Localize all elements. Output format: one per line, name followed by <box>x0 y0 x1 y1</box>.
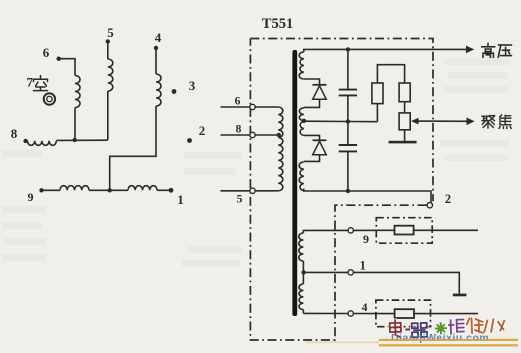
transformer T551 boundary (dash-dot outline) <box>250 39 433 341</box>
wire pin 4 to resistor Rb <box>353 313 394 315</box>
HV winding section S3 <box>300 122 304 136</box>
terminal circle pin 4 <box>348 311 353 316</box>
label kong (empty pin) glyph <box>34 76 48 91</box>
wire pin 1 (tap to terminal) <box>304 271 348 273</box>
watermark underline 1 <box>379 339 518 341</box>
terminal circle pin 2 <box>427 203 432 208</box>
arrowhead HV output <box>466 46 474 54</box>
resistor R2 <box>399 83 410 102</box>
ground bar (focus divider) <box>389 141 417 144</box>
svg-text:1: 1 <box>360 259 366 273</box>
svg-text:6: 6 <box>235 96 241 108</box>
svg-text:8: 8 <box>11 126 18 141</box>
tertiary winding top section <box>299 233 304 261</box>
wire divider top link <box>377 65 404 83</box>
wire resistor Rb to right <box>414 313 478 315</box>
primary tap junction dot <box>277 133 281 137</box>
terminal circle pin 1 <box>348 270 353 275</box>
pin 9 node dot <box>39 188 43 192</box>
terminal circle pin 9 <box>348 228 353 233</box>
wire rail B middle <box>89 189 128 191</box>
wire pin4 to winding L3 <box>155 48 157 74</box>
wire L2 bottom to rail A corner <box>107 91 109 140</box>
primary winding of T551 <box>278 107 283 191</box>
wire pin6 to winding L1 <box>59 59 75 76</box>
HV winding section S2 <box>299 108 303 121</box>
wiper arrowhead into RV1 <box>411 118 419 125</box>
pin 5 node dot <box>106 39 110 43</box>
junction dot rail B / pin4 branch <box>108 188 112 192</box>
capacitor C1 <box>339 90 357 96</box>
wire pin8 circle to primary tap <box>255 134 279 136</box>
wire rail A <box>56 139 108 141</box>
HV winding section S1 <box>299 52 304 79</box>
winding L2 (pin 5 branch) <box>108 59 113 91</box>
tertiary winding bottom section <box>302 272 304 284</box>
pin 7 empty terminal symbol (double circle) <box>44 93 55 104</box>
winding L5 (rail B left coil) <box>60 186 89 191</box>
wire pin5 circle to primary bottom <box>255 190 278 192</box>
watermark colored characters <box>390 316 506 338</box>
label jujiao (focus) <box>482 116 495 128</box>
wire stub pin 8 <box>221 134 250 136</box>
pin 4 node dot <box>154 46 158 50</box>
wire stub pin 6 <box>221 106 250 108</box>
dashed box around Rb <box>376 300 431 327</box>
wire focus rail (tap to C junction) <box>304 120 348 122</box>
resistor R1 <box>372 83 383 104</box>
wire focus output <box>418 120 468 122</box>
core of T551 <box>292 50 297 316</box>
svg-text:2: 2 <box>445 192 451 206</box>
capacitor C2 <box>339 145 357 151</box>
wire pin5 to winding L2 <box>107 42 109 60</box>
resistor Ra (fusible) <box>395 226 414 235</box>
svg-text:9: 9 <box>363 232 369 246</box>
wire pin6 circle to primary top <box>255 106 278 108</box>
svg-text:1: 1 <box>177 192 184 207</box>
svg-text:8: 8 <box>236 124 242 136</box>
wire HV top rail (winding top to junction) <box>304 49 348 52</box>
wire D2 to section S4 <box>304 155 320 162</box>
junction dot rail A / pin6 branch <box>73 138 77 142</box>
wire rail B to pin 1 <box>157 189 171 191</box>
resistor Rb (fusible) <box>395 309 414 318</box>
wire RV1 to ground <box>404 130 406 141</box>
winding L1 (pin 6 branch) <box>75 76 80 108</box>
junction dot top rail / C1 <box>346 47 350 51</box>
svg-text:6: 6 <box>43 45 50 60</box>
svg-text:4: 4 <box>155 30 162 45</box>
potentiometer RV1 (focus) <box>399 113 410 130</box>
wire S1 to diode D1 <box>304 79 320 85</box>
svg-text:DianqiWeixiu.com: DianqiWeixiu.com <box>391 332 489 344</box>
wire HV top rail to output arrow <box>348 48 467 50</box>
watermark underline 2 <box>379 344 518 346</box>
pin 3 node dot <box>172 89 177 94</box>
wire stub pin 5 <box>221 190 250 192</box>
watermark underline faint left <box>306 342 379 344</box>
junction dot focus rail / C1 C2 <box>346 119 350 123</box>
pin 2 node dot <box>187 138 192 143</box>
svg-text:T551: T551 <box>262 16 293 32</box>
wire pin 4 (winding bottom to terminal) <box>303 312 348 314</box>
wire HV bottom rail <box>304 189 431 203</box>
svg-text:3: 3 <box>189 78 196 93</box>
wire pin9 to winding L5 <box>42 189 61 191</box>
wire L3 bottom jog to rail B <box>110 106 156 190</box>
wire pin 1 to ground <box>353 272 459 293</box>
label gaoya (high voltage) <box>482 44 495 58</box>
svg-text:5: 5 <box>107 25 114 40</box>
diode D2 <box>313 139 327 141</box>
wire L1 bottom to rail A <box>74 108 76 141</box>
terminal circle pin 6 <box>250 104 255 109</box>
svg-text:4: 4 <box>362 300 368 314</box>
ground bar (pin 1 return) <box>453 294 467 297</box>
dashed box around Ra <box>376 218 432 244</box>
svg-text:5: 5 <box>237 194 243 206</box>
pin 8 node dot <box>23 139 27 143</box>
tertiary tap junction dot (pin 1) <box>301 270 305 274</box>
wire R1 to focus rail <box>376 104 378 122</box>
pin 1 node dot <box>169 188 174 193</box>
terminal circle pin 8 <box>250 132 255 137</box>
wire R2 to potentiometer <box>404 102 406 113</box>
svg-text:2: 2 <box>199 123 206 138</box>
svg-text:9: 9 <box>28 190 34 204</box>
pin 6 node dot <box>57 57 61 61</box>
wire D1 to section S2 <box>304 99 320 107</box>
arrowhead focus output <box>467 118 475 126</box>
junction dot bottom rail / C2 <box>346 189 350 193</box>
svg-text:7: 7 <box>27 75 34 90</box>
wire resistor Ra to right <box>414 229 478 231</box>
terminal circle pin 5 <box>250 188 255 193</box>
wire pin 9 to resistor Ra <box>353 229 394 231</box>
wire focus rail to R1 <box>348 121 378 123</box>
winding L3 (pin 4 branch) <box>156 74 161 106</box>
diode D1 <box>313 84 327 86</box>
winding L6 (rail B right coil) <box>128 186 157 191</box>
winding L4 (pin 8 branch) <box>28 141 57 146</box>
wire pin 9 (winding top to terminal) <box>303 230 348 233</box>
wire S3 to diode D2 <box>304 135 320 140</box>
focus tap junction dot <box>302 119 306 123</box>
HV winding section S4 <box>299 162 304 191</box>
